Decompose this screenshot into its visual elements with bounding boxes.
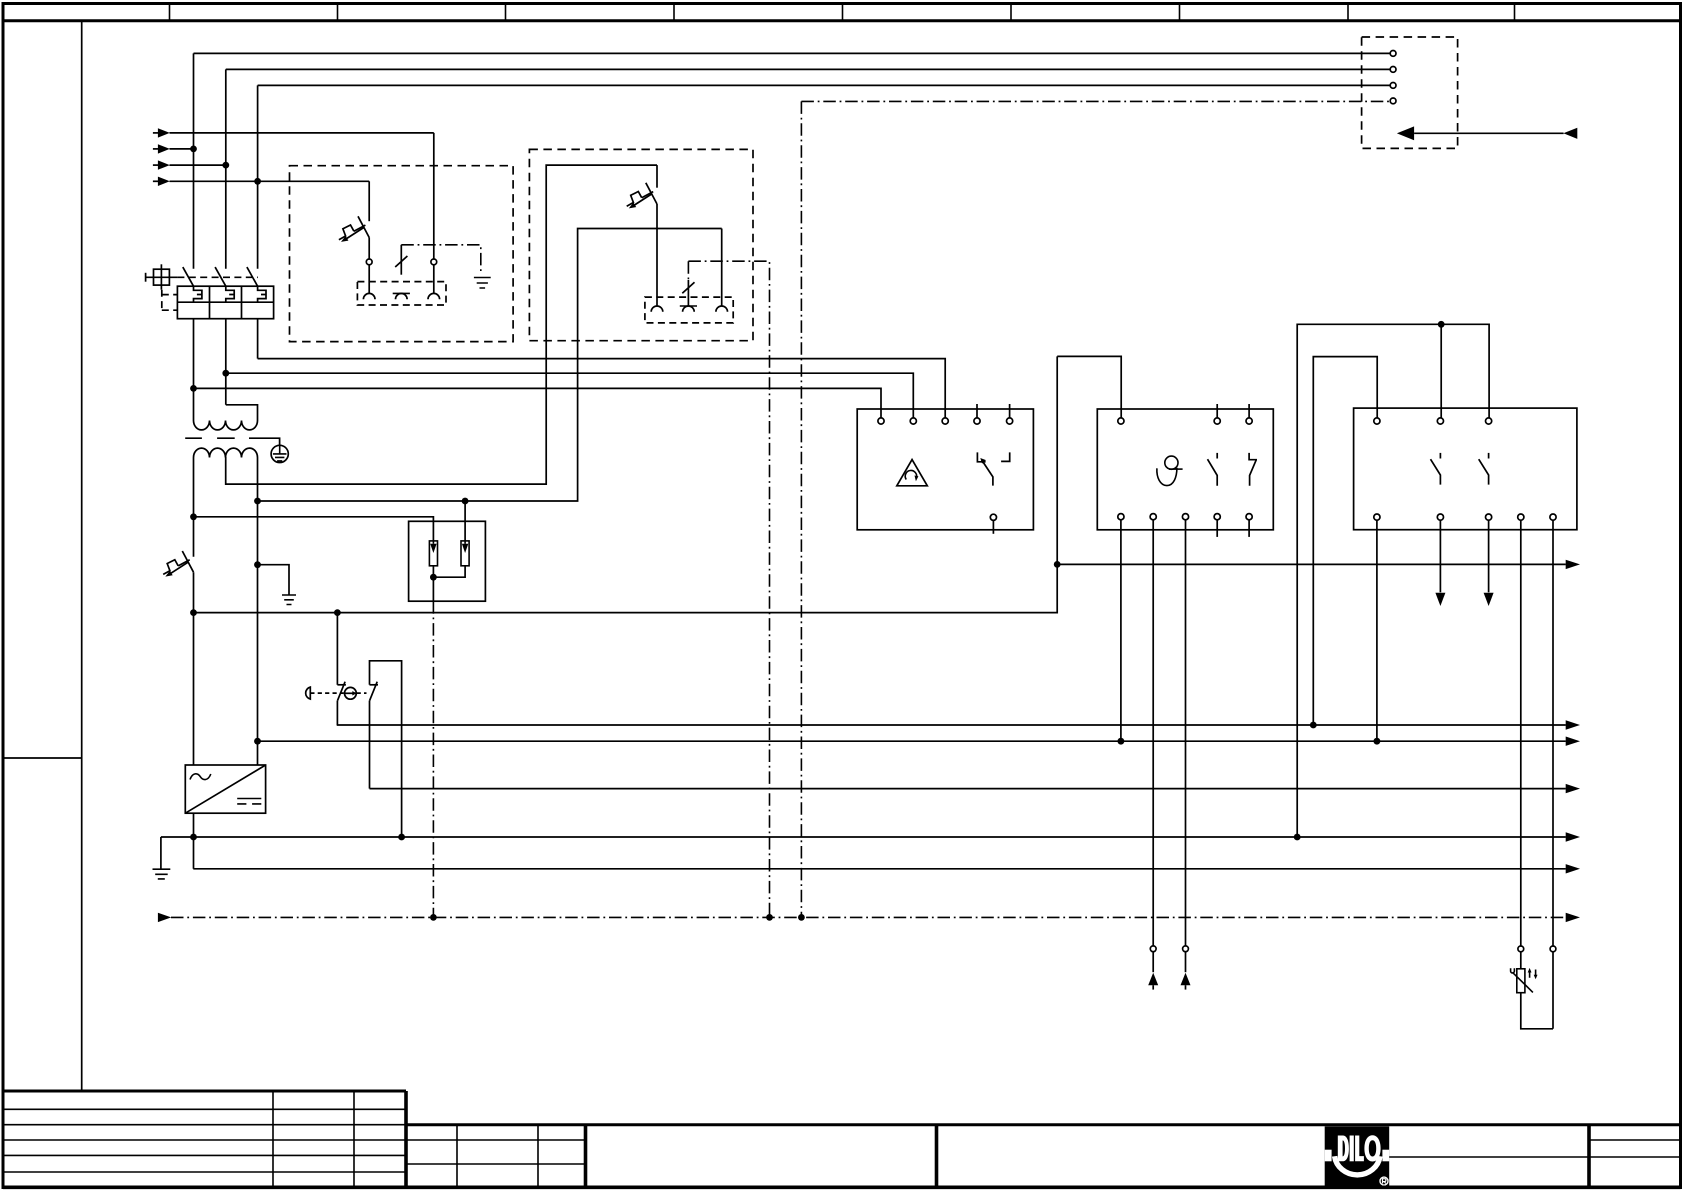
plug circle X1:1	[1390, 51, 1396, 57]
K3 pin circle b2	[1437, 514, 1443, 520]
K3 pin circle b1	[1374, 514, 1380, 520]
wire pin to socket 3	[433, 265, 435, 294]
K2 pin circle t3 with stub	[1246, 404, 1252, 424]
top band column tick 6	[1010, 4, 1012, 21]
plug circle transducer 2	[1550, 946, 1556, 952]
T1 screen earth circle	[271, 445, 288, 462]
Q1 trip linkage dashed	[162, 290, 178, 311]
wire G1 minus down	[193, 813, 195, 869]
dashed enclosure box A2	[529, 149, 753, 340]
wire L1 drop into box A1	[433, 133, 435, 259]
PE dash-dot link in box A1	[401, 245, 481, 272]
wire K2 b2 to plug	[1152, 520, 1154, 946]
Q1 thermal element 1	[194, 286, 202, 302]
small table right thick edge	[584, 1125, 588, 1188]
node N tap	[254, 178, 261, 185]
motor protection switch Q1 handle	[146, 264, 178, 289]
Q1 thermal element 2	[226, 286, 234, 302]
node arrester lands on PE rail	[430, 914, 437, 921]
top band column tick 2	[337, 4, 339, 21]
up arrow signal 2	[1181, 973, 1191, 990]
wire Q1 out pole1 to T1	[193, 319, 195, 421]
title block divider	[935, 1125, 939, 1188]
socket dome 3 box A1	[428, 293, 440, 299]
node 24V- tap	[190, 609, 197, 616]
transformer T1 primary winding	[194, 421, 258, 430]
top reference band bottom line	[3, 19, 1681, 22]
node L2 tap	[190, 146, 197, 153]
K1 changeover contact	[977, 452, 1009, 485]
wire L2 top run	[226, 68, 1390, 70]
wire K3 b3 out	[1488, 520, 1490, 592]
relay K2 box	[1097, 409, 1273, 530]
K1 pin circle t2	[910, 418, 916, 424]
surge arrester box F2	[409, 521, 486, 601]
cable arrow into X1	[1397, 126, 1577, 140]
S1 dashed actuating line	[310, 692, 366, 694]
arrow rail G1 L	[1566, 784, 1580, 793]
wire PE dash-dot riser	[800, 101, 802, 917]
down arrow K3 b3	[1484, 593, 1494, 606]
plug circle X1:2	[1390, 67, 1396, 73]
arrester element 2	[461, 541, 469, 566]
arrester element 1	[429, 541, 437, 566]
small table column lines	[457, 1125, 538, 1188]
arrow rail 0V	[1566, 832, 1580, 841]
K3 pin circle t3	[1486, 418, 1492, 424]
wire T1 secondary left drop	[193, 458, 195, 766]
top band column tick 4	[673, 4, 675, 21]
right small table thick edge	[1587, 1125, 1591, 1188]
arrow rail S1a	[1566, 720, 1580, 729]
K1 pin circle t5 with stub	[1007, 404, 1013, 424]
wire feed into box A2 riser corner	[656, 165, 658, 188]
relay K1 box	[857, 409, 1033, 530]
wire K3 coil feed	[1313, 357, 1377, 725]
wire K3 b1 to S1b rail	[1376, 520, 1378, 741]
wire F4 to socket 1	[368, 265, 370, 294]
S1 contact 2 NO	[370, 661, 402, 837]
ground symbol bottom left	[153, 869, 171, 879]
wire phase 1 drop	[193, 53, 195, 268]
K2 pin circle b1	[1118, 514, 1124, 520]
K2 pin circle t1	[1118, 418, 1124, 424]
K2 coil release symbol	[1157, 456, 1183, 486]
Q1 pole 1 blade	[183, 267, 194, 286]
socket dome 2 box A1 with bar	[393, 293, 410, 299]
down arrow K3 b2	[1435, 593, 1445, 606]
wire K3 b2 out	[1439, 520, 1441, 592]
revision table right edge	[404, 1091, 408, 1187]
wire N feed into box A1	[368, 181, 370, 221]
S1 contact 1 NC	[337, 613, 346, 725]
wire rail G1 minus	[193, 868, 1566, 870]
transformer T1 core	[185, 438, 279, 445]
K1 pin circle t3	[942, 418, 948, 424]
wire 0V run to riser	[258, 229, 722, 502]
K1 pin circle t4 with stub	[974, 404, 980, 424]
wire T1 center tap	[226, 165, 657, 484]
wire pole1 run to relay K1 pin1	[194, 388, 882, 417]
wire F4 pivot to pin	[368, 238, 370, 260]
K3 pin circle t2	[1437, 418, 1443, 424]
K3 NO contact 1	[1431, 453, 1441, 485]
wire arrester elements bottom join	[433, 566, 465, 577]
arrow rail S1b	[1566, 737, 1580, 746]
wire transducer loop bottom	[1521, 952, 1553, 1029]
node pole2 tap to relay K1	[222, 370, 229, 377]
key switch S1 actuator mushroom	[306, 687, 311, 699]
bus entry arrow N	[153, 177, 369, 186]
plug circle transducer 1	[1518, 946, 1524, 952]
wire phase 3 drop	[257, 85, 259, 268]
wire plug 1 down	[1152, 952, 1154, 973]
node S1 contact 1 top	[334, 609, 341, 616]
up arrow signal 1	[1148, 973, 1158, 990]
node PSU L input tap	[254, 738, 261, 745]
wire earth link	[258, 565, 290, 595]
wire T1 primary right link	[226, 405, 258, 421]
wire rail minus24	[194, 612, 1058, 614]
plug pin circle L1	[431, 259, 437, 265]
S1 key circle with arrow	[345, 687, 357, 699]
left margin column divider	[3, 757, 82, 759]
PE contact in box A1	[395, 245, 407, 275]
K1 pin circle b1 with stub	[990, 514, 996, 534]
socket dome 2 box A2 with bar	[680, 306, 697, 312]
wire L1 top run	[194, 52, 1391, 54]
dashed socket strip box A2	[645, 297, 733, 323]
K2 pin circle t2 with stub	[1214, 404, 1220, 424]
PE contact in box A2	[682, 261, 694, 306]
power supply G1	[185, 765, 265, 813]
node earth link tap	[254, 561, 261, 568]
bus entry arrow L3	[153, 160, 226, 169]
K2 pin circle b5 with stub	[1246, 514, 1252, 537]
revision table top line	[3, 1090, 406, 1093]
title block top line	[406, 1123, 1681, 1126]
K1 warning triangle with rotation arrow	[897, 460, 928, 486]
node secondary right tap	[254, 498, 261, 505]
revision table row lines	[3, 1109, 406, 1172]
dashed connector box X1 top right	[1362, 37, 1458, 148]
K3 pin circle b4	[1518, 514, 1524, 520]
title mid row line	[1389, 1156, 1589, 1158]
wire L3 top run	[258, 84, 1391, 86]
wire K3 b5 to transducer	[1552, 520, 1554, 946]
wire F5 to socket 1	[656, 204, 658, 306]
bus entry arrow L2	[153, 144, 194, 153]
K2 NO contact	[1208, 453, 1218, 486]
wire K3 feed upper	[1297, 324, 1489, 837]
K2 NC contact	[1249, 453, 1257, 486]
wire arrester down solid	[432, 577, 434, 601]
K2 pin circle b4 with stub	[1214, 514, 1220, 537]
wire T1 secondary right drop	[257, 458, 259, 766]
wire phase 2 drop	[225, 69, 227, 268]
wire arrester element2 top	[464, 501, 466, 541]
top band column tick 9	[1514, 4, 1516, 21]
top band column tick 1	[169, 4, 171, 21]
wire 24V+ to arrester	[194, 517, 434, 541]
node arrester join	[430, 574, 437, 581]
wire K2 coil feed top	[1057, 356, 1121, 417]
node K3 b1 on S1b rail	[1374, 738, 1381, 745]
Q1 thermal element 3	[258, 286, 266, 302]
plug pin circle F4 out	[366, 259, 372, 265]
arrester earth dash-dot drop	[432, 601, 434, 917]
top band column tick 5	[842, 4, 844, 21]
wire plug 2 down	[1185, 952, 1187, 973]
wire PE dash-dot top run	[801, 100, 1390, 102]
right small table rows	[1589, 1140, 1681, 1157]
wire rail S1b	[258, 740, 1566, 742]
arrow rail G1 minus	[1566, 864, 1580, 873]
node pole1 tap to relay K1	[190, 385, 197, 392]
PE collector rail dash-dot	[158, 913, 1566, 922]
node K2 supply tap	[1054, 561, 1061, 568]
node K3 0V tap	[1294, 834, 1301, 841]
wire pole2 run to relay K1 pin2	[226, 373, 914, 418]
wire K3 t2 drop	[1440, 324, 1442, 418]
left margin column line	[81, 21, 83, 1091]
PE dash-dot link out of box A2	[688, 261, 769, 917]
wire riser to socket 3 box A2	[721, 229, 723, 307]
top band column tick 7	[1179, 4, 1181, 21]
arrow PE rail	[1566, 913, 1580, 922]
Q1 overload box	[177, 286, 273, 319]
wire rail 0V	[161, 836, 1566, 838]
circuit breaker F4 in box A1	[339, 216, 369, 242]
node arrester branch	[462, 498, 469, 505]
transformer T1 secondary winding	[194, 448, 258, 457]
wire rail G1 L	[370, 788, 1566, 790]
wire Q1 out pole2	[225, 319, 227, 405]
socket dome 1 box A2	[651, 306, 663, 312]
wire riser K2 supply	[1056, 356, 1058, 612]
revision table column lines	[273, 1091, 354, 1187]
K2 pin circle b3	[1182, 514, 1188, 520]
wire rail S1a	[337, 724, 1566, 726]
plug circle X1:PE	[1390, 98, 1396, 104]
wire Q1 out pole3	[257, 319, 259, 359]
Q1 actuating dashed link horizontal	[177, 276, 258, 278]
wire 0V rail left end to ground	[160, 837, 162, 869]
varistor B1	[1511, 952, 1538, 993]
ground symbol at earth link	[282, 595, 296, 605]
plug circle signal 1	[1150, 946, 1156, 952]
bus entry arrow L1	[153, 128, 434, 137]
node L3 tap	[222, 162, 229, 169]
socket dome 3 box A2	[716, 306, 728, 312]
K2 pin circle b2	[1150, 514, 1156, 520]
K3 pin circle t1	[1374, 418, 1380, 424]
wire pole3 run to relay K1 pin3	[258, 359, 946, 418]
node PE riser junction	[798, 914, 805, 921]
wire K2 coil to S1b rail	[1120, 520, 1122, 741]
circuit breaker F5 in box A2	[627, 183, 657, 209]
socket dome 1 box A1	[363, 293, 375, 299]
top band column tick 3	[505, 4, 507, 21]
K3 pin circle b5	[1550, 514, 1556, 520]
node G1 minus on 0V rail	[190, 834, 197, 841]
circuit breaker F1 left	[163, 551, 193, 577]
arrow rail plus24	[1566, 560, 1580, 569]
Q1 pole 3 blade	[247, 267, 258, 286]
K3 pin circle b3	[1486, 514, 1492, 520]
wire rail plus24	[1057, 563, 1566, 565]
DILO logo	[1325, 1126, 1390, 1188]
wire K2 b3 to plug	[1185, 520, 1187, 946]
node K3 feed t2	[1438, 321, 1445, 328]
K3 NO contact 2	[1479, 453, 1489, 485]
K1 pin circle t1	[878, 418, 884, 424]
small table row lines	[406, 1140, 586, 1164]
dashed socket strip box A1	[357, 282, 446, 305]
node K2 coil on S1b rail	[1118, 738, 1125, 745]
relay K3 box	[1354, 408, 1577, 530]
top band column tick 8	[1347, 4, 1349, 21]
ground symbol in box A1	[474, 278, 491, 289]
node 24V+ tap	[190, 513, 197, 520]
dashed enclosure box A1	[290, 166, 514, 342]
plug circle X1:3	[1390, 83, 1396, 89]
Q1 pole 2 blade	[215, 267, 226, 286]
node K3 feed tap	[1310, 722, 1317, 729]
node PE link lands on PE rail	[766, 914, 773, 921]
wire K3 b4 to transducer	[1520, 520, 1522, 946]
node S1 branch on 0V rail	[398, 834, 405, 841]
bottom border thick	[3, 1186, 1681, 1190]
plug circle signal 2	[1183, 946, 1189, 952]
